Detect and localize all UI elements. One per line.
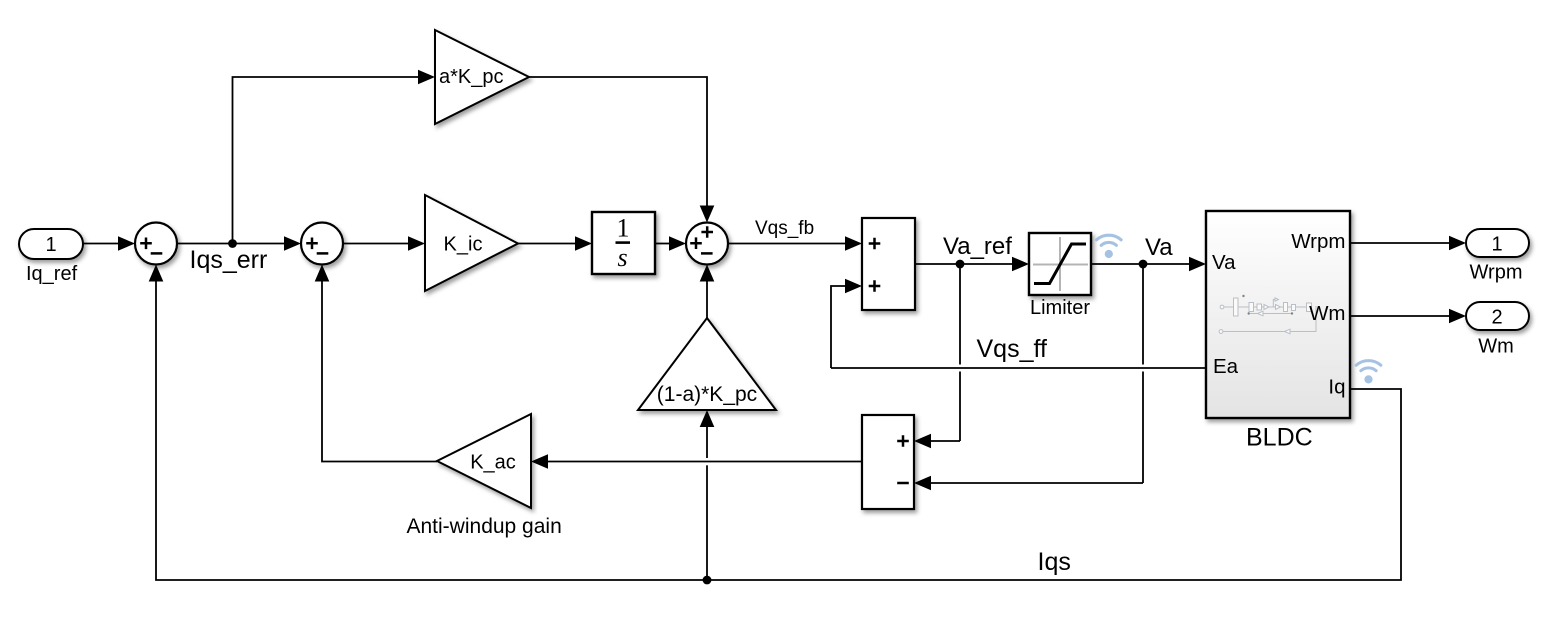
svg-text:Ea: Ea	[1213, 355, 1239, 378]
gain K_ic	[425, 195, 518, 291]
svg-text:2: 2	[1491, 307, 1502, 329]
adder Add2 (mirrored)	[862, 415, 914, 509]
wire Va feedback down to Add2 minus	[914, 264, 1143, 490]
wire (1-a)*K_pc out to Sum3 bottom	[700, 265, 715, 319]
wire K_ac out up to Sum2 bottom	[315, 265, 437, 462]
wire Sum1 to Sum2	[177, 236, 301, 251]
gain a*K_pc	[435, 30, 529, 124]
svg-text:Wrpm: Wrpm	[1291, 230, 1345, 253]
svg-text:Wm: Wm	[1478, 336, 1514, 358]
wire BLDC Iq feedback bottom	[149, 265, 1401, 581]
BLDC preview sketch	[1219, 295, 1316, 334]
svg-text:a*K_pc: a*K_pc	[439, 66, 504, 88]
svg-text:Anti-windup gain: Anti-windup gain	[407, 515, 562, 538]
wire Add1 to Limiter	[915, 257, 1029, 272]
svg-text:Va: Va	[1145, 234, 1173, 261]
svg-text:Iqs_err: Iqs_err	[190, 246, 268, 274]
wire branch up to a*K_pc	[233, 70, 436, 244]
limiter block	[1029, 233, 1091, 295]
svg-text:Vqs_fb: Vqs_fb	[755, 218, 814, 239]
outport 1 Wrpm	[1466, 229, 1529, 257]
node Iqs_err junction	[228, 239, 237, 248]
wire Iq_ref to Sum1	[83, 236, 135, 251]
outport 2 Wm	[1466, 302, 1529, 330]
svg-text:Wrpm: Wrpm	[1470, 262, 1523, 284]
wire Va_ref down to Add2 plus	[914, 264, 960, 448]
wire Sum2 to K_ic	[343, 236, 425, 251]
wire integrator to Sum3	[655, 236, 686, 251]
svg-text:Wm: Wm	[1309, 302, 1345, 325]
svg-text:s: s	[617, 243, 627, 272]
wire Sum3 to Add1	[728, 236, 862, 251]
svg-text:1: 1	[45, 234, 56, 256]
wire K_ic to integrator	[518, 236, 592, 251]
inport 1 Iq_ref	[19, 229, 83, 259]
svg-text:BLDC: BLDC	[1246, 424, 1313, 452]
wire a*K_pc to Sum3 top	[529, 77, 714, 223]
wire Limiter to BLDC Va	[1091, 257, 1206, 272]
wire Vqs_ff to BLDC Ea	[831, 367, 1206, 369]
subsystem BLDC	[1206, 211, 1350, 418]
adder Add1	[862, 218, 915, 310]
integrator 1/s	[592, 212, 655, 274]
svg-text:K_ic: K_ic	[444, 234, 483, 256]
sum S1	[135, 223, 177, 265]
node Va_ref junction	[956, 260, 965, 269]
svg-text:K_ac: K_ac	[470, 452, 516, 474]
sum S3	[686, 223, 728, 265]
wire BLDC Wrpm to outport 1	[1350, 236, 1466, 251]
wire Add2 out to K_ac	[531, 454, 862, 469]
node Iqs junction	[703, 576, 712, 585]
gain (1-a)*K_pc	[638, 318, 776, 410]
wire BLDC Wm to outport 2	[1350, 309, 1466, 324]
svg-text:Va_ref: Va_ref	[943, 233, 1012, 260]
sum S2	[301, 223, 343, 265]
svg-text:Vqs_ff: Vqs_ff	[977, 335, 1047, 363]
svg-text:Iq_ref: Iq_ref	[26, 263, 78, 285]
logging wifi icon 2	[1356, 361, 1381, 384]
svg-text:Va: Va	[1212, 251, 1236, 274]
logging wifi icon 1	[1097, 235, 1122, 258]
svg-text:1: 1	[1491, 234, 1502, 256]
wire Vqs_ff branch into Add1 in2	[831, 279, 862, 368]
svg-text:(1-a)*K_pc: (1-a)*K_pc	[657, 383, 757, 406]
svg-text:1: 1	[617, 214, 630, 243]
wire Iqs branch up to (1-a)*K_pc	[700, 410, 715, 580]
svg-text:Iqs: Iqs	[1038, 548, 1071, 576]
svg-text:Limiter: Limiter	[1030, 297, 1090, 319]
node Va junction	[1139, 260, 1148, 269]
svg-text:Iq: Iq	[1328, 376, 1345, 399]
gain K_ac	[437, 414, 531, 508]
